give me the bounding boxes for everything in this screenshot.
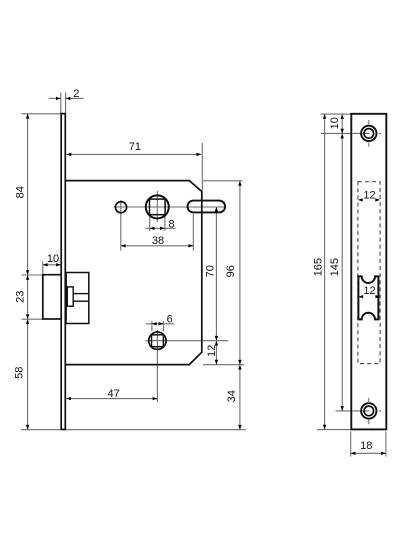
svg-text:84: 84 <box>15 186 27 198</box>
svg-text:71: 71 <box>129 141 141 153</box>
svg-text:10: 10 <box>329 117 341 129</box>
svg-text:12: 12 <box>206 345 218 357</box>
svg-text:38: 38 <box>152 235 164 247</box>
svg-text:58: 58 <box>13 367 25 379</box>
svg-text:10: 10 <box>47 253 59 265</box>
svg-text:12: 12 <box>363 189 375 201</box>
svg-text:34: 34 <box>226 390 238 402</box>
svg-text:23: 23 <box>14 291 26 303</box>
svg-text:12: 12 <box>363 285 375 297</box>
svg-text:2: 2 <box>73 88 79 100</box>
svg-text:18: 18 <box>360 440 372 452</box>
svg-text:47: 47 <box>107 388 119 400</box>
svg-text:145: 145 <box>329 258 341 276</box>
svg-text:6: 6 <box>167 313 173 325</box>
svg-text:70: 70 <box>205 265 217 277</box>
svg-text:96: 96 <box>225 265 237 277</box>
svg-text:8: 8 <box>168 219 174 231</box>
svg-text:165: 165 <box>313 258 325 276</box>
